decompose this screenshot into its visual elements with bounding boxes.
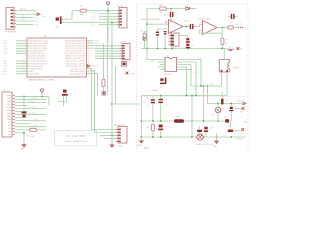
transformer T2 box [219, 60, 229, 73]
wire IC1 pin VID down [87, 71, 116, 133]
wire SV4 pin4 [95, 53, 120, 55]
junction rail x192 [191, 95, 193, 97]
svg-text:16M: 16M [55, 26, 59, 28]
wire X2 pin11 [15, 126, 46, 128]
IC U3 box with notch [165, 58, 177, 72]
svg-text:VGA7: VGA7 [6, 112, 11, 115]
wire net MCLR [16, 10, 37, 12]
svg-text:AVCC AGND: AVCC AGND [29, 72, 40, 75]
svg-text:R1: R1 [228, 125, 230, 127]
svg-text:XTAL1/TOSC1.CLK PB6: XTAL1/TOSC1.CLK PB6 [65, 60, 85, 63]
svg-text:C5: C5 [229, 11, 231, 13]
svg-text:C7: C7 [191, 45, 193, 47]
wire fb vertical [221, 28, 223, 39]
svg-text:XTAL2/TOSC2.CLK PB7: XTAL2/TOSC2.CLK PB7 [65, 62, 85, 65]
svg-text:21: 21 [88, 58, 90, 60]
svg-text:AGND: AGND [144, 147, 150, 150]
resistor R4 [160, 7, 167, 10]
svg-text:(AIN0/OC0A.PC22) PD6: (AIN0/OC0A.PC22) PD6 [65, 55, 85, 58]
svg-text:PC3 (ADC3/PCINT11): PC3 (ADC3/PCINT11) [29, 62, 47, 65]
capacitor C2b [156, 32, 159, 33]
wire cap branch [23, 96, 25, 111]
wire SV4 pin1 [95, 45, 120, 47]
wire after R2 [37, 129, 47, 131]
wire opamp1 minus fb [158, 29, 169, 32]
ground GND1 arrow [22, 143, 26, 147]
svg-text:PC2 (ADC2/PCINT10): PC2 (ADC2/PCINT10) [29, 60, 47, 63]
polarized cap C15 [204, 127, 207, 130]
svg-text:PC4 (ADC4/SDA): PC4 (ADC4/SDA) [29, 65, 44, 68]
wire IC1 left pin1 [16, 40, 27, 42]
wire x216 gnd drop [216, 133, 218, 141]
wire C5 stubs [228, 15, 237, 17]
capacitor C3b [164, 31, 167, 32]
connector X2 [2, 92, 12, 137]
flag arrow IC1 TX [87, 65, 90, 68]
wire IC3 left pin3 [160, 64, 165, 66]
junction bus x222.3 [221, 48, 223, 50]
svg-text:VGA5: VGA5 [6, 106, 11, 109]
svg-text:VGA2: VGA2 [6, 97, 11, 100]
svg-text:VGA6: VGA6 [6, 109, 11, 112]
wire IC3 right pin1 [177, 60, 202, 87]
resistor R9 dark [221, 99, 223, 105]
wire SV1 pin4 [99, 18, 117, 20]
svg-text:22: 22 [88, 55, 90, 57]
nc cross S1 [126, 72, 129, 75]
wire X2 pin8 [15, 117, 27, 119]
svg-text:VGA.AVR (MEGA. 8. TQFP): VGA.AVR (MEGA. 8. TQFP) [28, 79, 54, 82]
polarized cap C6 [186, 38, 189, 40]
ground AGND arrow [139, 141, 143, 144]
svg-text:PC1 (ADC1/PCINT9): PC1 (ADC1/PCINT9) [29, 57, 46, 60]
svg-text:SCL: SCL [3, 73, 7, 75]
wire SV2 bottom stub [171, 46, 173, 49]
capacitor C4 series [190, 24, 191, 29]
svg-text:0.1u: 0.1u [229, 21, 233, 23]
note frame project text [55, 131, 97, 147]
junction gnd x216.5 [216, 136, 218, 138]
svg-text:C.GND: C.GND [40, 16, 47, 18]
svg-text:L.VGA.R: L.VGA.R [27, 100, 35, 103]
svg-text:B.IN: B.IN [92, 19, 96, 21]
svg-text:RXD: RXD [21, 19, 26, 21]
wire R5 links [145, 32, 147, 49]
flag arrow net 5V [37, 13, 40, 16]
junction gnd x152.9 [152, 136, 154, 138]
svg-text:(AIN1/PCINT23.A1) PD7: (AIN1/PCINT23.A1) PD7 [65, 57, 85, 60]
svg-text:C7: C7 [69, 94, 71, 96]
svg-text:D.G2: D.G2 [3, 53, 7, 55]
polarized cap C8 [102, 92, 106, 96]
wire IC3 left pin2 [158, 61, 165, 63]
svg-text:TV.OUT: TV.OUT [91, 66, 99, 68]
wire x192 drop [191, 96, 193, 138]
wire nc2 stub [235, 108, 241, 110]
svg-text:P.GBB: P.GBB [152, 90, 158, 92]
junction left y121 [140, 120, 142, 122]
wire R8 link [152, 131, 154, 137]
svg-text:GND: GND [34, 24, 39, 26]
wire gnd rail y137 [141, 136, 246, 138]
wire IC1 left pin5 [16, 50, 27, 52]
junction mid x152.9 [152, 120, 154, 122]
resistor R2 [30, 128, 37, 131]
ground GND5 rail [228, 49, 234, 50]
svg-text:D2: D2 [212, 115, 214, 117]
wire SV4 pin5 [95, 55, 120, 57]
frame sheet2 dotted border [137, 4, 249, 150]
wire x115 vertical [115, 66, 117, 104]
wire bus to IC3 [147, 49, 165, 60]
svg-text:GND: GND [118, 146, 123, 148]
wire pin5 [16, 23, 33, 25]
wire SV4 pin2 [95, 47, 120, 49]
svg-text:G.IN: G.IN [92, 16, 97, 18]
svg-text:SUPPLY: SUPPLY [233, 67, 241, 69]
svg-text:SV2: SV2 [170, 31, 174, 33]
ground GND2 arrow [110, 144, 114, 148]
svg-text:(TXD/PCINT17.AIN) PD1: (TXD/PCINT17.AIN) PD1 [65, 42, 85, 45]
wire C3b down [164, 35, 166, 49]
wire IC3 right pin3 [177, 65, 192, 87]
wire supply rail y95.5 [141, 95, 227, 97]
wire vertical bus x112 [111, 22, 113, 135]
wire C7 stub b [58, 96, 67, 102]
wire pin4 [16, 20, 33, 22]
svg-text:L.VGA.B: L.VGA.B [29, 112, 37, 115]
junction X2 y96 b [41, 96, 43, 98]
wire opamp1 out [183, 26, 190, 28]
svg-text:IC3: IC3 [166, 56, 169, 58]
wire mid rail y121 [141, 120, 231, 122]
led D2 [215, 107, 221, 113]
wire X2 pin5 [15, 108, 46, 110]
svg-text:74HC04D: 74HC04D [164, 74, 173, 76]
wire X2 gnd drop [23, 133, 25, 143]
junction HSUB a [200, 85, 202, 87]
wire VCC2 drop [41, 93, 43, 96]
wire SV4 pin3 [95, 50, 120, 52]
wire T2 top [223, 49, 225, 60]
wire IC1 left pin7 [16, 60, 27, 62]
connector X1 pins [11, 10, 14, 12]
junction SV3 [111, 135, 113, 137]
svg-text:HD IN: HD IN [117, 6, 123, 8]
resistor R1 [80, 9, 87, 12]
resistor R3 vertical [102, 79, 105, 87]
junction bus x147 [146, 48, 148, 50]
wire opamp2 fb [200, 30, 223, 33]
wire opamp1 plus [147, 23, 169, 25]
polarized cap C12 [159, 125, 163, 128]
svg-text:V14: V14 [8, 134, 11, 136]
junction bus x165.1 [164, 48, 166, 50]
capacitor C5 [231, 14, 232, 19]
svg-text:10k: 10k [80, 14, 83, 16]
junction gnd x203.5 [203, 136, 205, 138]
wire SV1 pin2 [99, 13, 117, 15]
svg-text:1.5: 1.5 [146, 105, 149, 107]
svg-text:GND: GND [213, 146, 218, 148]
wire after D1 [190, 8, 197, 10]
resistor R7 vertical [221, 38, 224, 45]
nc cross X2 [242, 107, 245, 110]
svg-text:L.VGA.G: L.VGA.G [29, 106, 37, 109]
svg-text:L.VGA.GB: L.VGA.GB [29, 97, 39, 100]
svg-text:GBATV SOFA LM358: GBATV SOFA LM358 [141, 18, 161, 21]
wire X2 pin6 [15, 111, 27, 113]
capacitor C11 [159, 99, 164, 101]
wire C15 link [205, 132, 207, 137]
wire pin2 [16, 13, 37, 15]
wire corner x49 [48, 96, 50, 105]
junction opamp1 out [185, 26, 187, 28]
node test points [238, 27, 239, 28]
svg-text:GND AGND GND1: GND AGND GND1 [70, 70, 85, 73]
wire IC3 right pin4 [177, 67, 187, 96]
svg-text:V.OUT: V.OUT [236, 24, 242, 26]
wire T2 pinB down [226, 72, 228, 96]
svg-text:VCC AVCC VCC1: VCC AVCC VCC1 [71, 67, 85, 70]
wire IC1 left pin8 [16, 63, 27, 65]
wire R9 top [221, 92, 223, 99]
wire IC1 left pin6 [16, 53, 27, 55]
svg-text:C9: C9 [224, 116, 226, 118]
junction opamp in [146, 23, 148, 25]
component S1 box [122, 62, 127, 67]
junction mid x160.7 [160, 120, 162, 122]
wire SV1 pin3 [99, 15, 117, 17]
svg-text:PC0 (ADC0/PCINT8): PC0 (ADC0/PCINT8) [29, 55, 46, 58]
wire IC1 right pin1 [87, 40, 94, 42]
wire D2 links [217, 104, 219, 122]
svg-text:R1: R1 [146, 98, 148, 100]
svg-text:VGA9: VGA9 [6, 118, 11, 121]
svg-text:1n: 1n [165, 14, 167, 16]
wire left drop [140, 96, 142, 141]
svg-text:R7: R7 [225, 39, 227, 41]
junction X2 gnd [23, 132, 25, 134]
svg-text:24: 24 [88, 50, 90, 52]
wire SV3 gnd drop [111, 136, 113, 144]
wire IC3 right pin5 [177, 69, 193, 71]
supply VCC2 symbol [41, 89, 44, 92]
wire C10 links [152, 96, 154, 122]
wire drop x203 [203, 86, 205, 121]
wire X2 pin9 [15, 120, 46, 122]
resistor R10 dark [197, 130, 202, 132]
capacitor C1 [170, 12, 171, 17]
wire IC1 left pin9 [16, 65, 27, 67]
ground GND3 arrow [215, 141, 219, 144]
diode D1 [186, 7, 190, 10]
wire crystal bottom [62, 21, 118, 23]
junction rail x186 [186, 95, 188, 97]
svg-text:Q2: Q2 [160, 86, 162, 88]
svg-text:VGA8: VGA8 [6, 115, 11, 118]
connector SV1 pins [120, 10, 122, 12]
svg-text:20: 20 [88, 61, 90, 63]
svg-text:VGA4: VGA4 [6, 103, 11, 106]
flag arrow AUDIO [243, 102, 246, 105]
svg-text:T1 L.GB: T1 L.GB [27, 136, 35, 138]
wire IC1 right pin4 [87, 47, 94, 49]
junction C1 top [170, 8, 172, 10]
wire C2b down [157, 36, 159, 49]
wire IC1 left pin2 [16, 42, 27, 44]
wire VCC vertical [107, 6, 109, 43]
connector SV4 pins [122, 45, 124, 47]
wire IC1 right pin2 [87, 42, 94, 44]
svg-text:C1: C1 [175, 13, 177, 15]
svg-text:HSUB: HSUB [209, 84, 215, 86]
wire HSUB rail [191, 72, 222, 86]
wire IC1 left pin11 [16, 70, 27, 72]
svg-text:POWER IDE: POWER IDE [5, 31, 17, 33]
wire pin3 [16, 17, 33, 19]
svg-text:C6: C6 [191, 39, 193, 41]
connector SV3 [118, 127, 127, 144]
junction rail x196b [195, 95, 197, 97]
capacitor C7 [63, 90, 67, 93]
svg-text:OPA2TV GRA: OPA2TV GRA [198, 18, 211, 21]
svg-text:AGND GND B-Legs: AGND GND B-Legs [196, 143, 213, 146]
wire audio out [208, 103, 244, 105]
svg-text:1.0mH: 1.0mH [175, 117, 181, 119]
svg-text:1k: 1k [225, 44, 227, 46]
resistor R8 vertical [151, 124, 154, 131]
capacitor C14 on rail [225, 119, 229, 122]
junction audio b [221, 103, 223, 105]
svg-text:R8: R8 [225, 99, 227, 101]
IC U1 ATmega box [27, 38, 87, 77]
svg-text:R5: R5 [141, 31, 143, 33]
wire SV4 pin6 [95, 58, 120, 60]
junction bus x157.5 [157, 48, 159, 50]
junction gnd x231.3 [230, 136, 232, 138]
junction opamp2 out [221, 27, 223, 29]
wire X2 pin12 [15, 129, 30, 131]
wire X2 pin10 [15, 123, 30, 125]
wire IC1 left pin10 [16, 68, 27, 70]
svg-text:AGND: AGND [137, 144, 143, 147]
wire y104 branch [112, 103, 140, 105]
wire C12 link [160, 130, 162, 137]
wire X2 pin2 [15, 98, 46, 100]
junction bus x172 [171, 48, 173, 50]
wire x107 vertical [107, 16, 109, 95]
wire C6 C7 link [187, 43, 189, 44]
svg-text:VGA1: VGA1 [6, 94, 11, 97]
svg-text:MCLR: MCLR [20, 9, 26, 11]
wire X2 pin7 [15, 114, 46, 116]
wire IC1 right pin3 [87, 45, 94, 47]
junction X2 y96 a [23, 96, 25, 98]
resistor R5 vertical [143, 33, 146, 40]
wire after R6 [233, 27, 237, 29]
wire IC3 left pin5 [160, 69, 165, 71]
wire C4 to opamp2 [193, 25, 202, 27]
svg-text:SDA: SDA [34, 17, 39, 20]
wire C1 link [166, 9, 172, 25]
junction gnd x192 [191, 136, 193, 138]
nc cross X3 [241, 128, 244, 131]
connector SV1 [119, 8, 127, 28]
wire IC3 right pin2 [177, 62, 197, 96]
supply mark sheet2 [143, 38, 145, 41]
svg-text:PROBE HD: PROBE HD [114, 125, 125, 127]
svg-text:PB1 (PLAY/OC1A.PWM): PB1 (PLAY/OC1A.PWM) [29, 42, 49, 45]
svg-text:HD.OUT: HD.OUT [120, 42, 128, 44]
svg-text:V10: V10 [8, 122, 11, 124]
junction HSUB c [207, 85, 209, 87]
polarized cap C13 [230, 107, 233, 109]
junction x112 y22 [111, 21, 113, 23]
wire IC1 pin SYNC down [87, 68, 116, 129]
connector SV2 [171, 33, 179, 46]
junction x112 y45.8 [111, 45, 113, 47]
svg-text:IC2A: IC2A [184, 20, 189, 23]
junction HSUB b [203, 85, 205, 87]
svg-text:10k: 10k [159, 12, 162, 14]
wire IC3 left pin4 [158, 66, 165, 68]
wire SV2 link [179, 36, 188, 39]
svg-text:V13: V13 [8, 131, 11, 133]
wire x103 vertical [103, 44, 105, 80]
wire X2 pin13 [15, 132, 24, 134]
svg-text:PB0 (PLAY/ICP1.CLK0): PB0 (PLAY/ICP1.CLK0) [29, 39, 48, 42]
wire C11 links [160, 96, 162, 122]
wire sheet2 input corner [147, 9, 185, 49]
wire SV1 pin5 [99, 24, 117, 26]
svg-text:C.TV: C.TV [101, 137, 106, 139]
wire IC1 pin GND down [87, 73, 98, 95]
junction mid x192 [191, 120, 193, 122]
svg-text:IDE - VGA - HDMI: IDE - VGA - HDMI [66, 135, 86, 138]
jack J2 circle [197, 134, 203, 140]
connector SV4 mid [122, 44, 130, 60]
wire net CLK [72, 10, 80, 12]
wire X2 pin1 [15, 95, 49, 97]
wire IC1 left pin3 [16, 45, 27, 47]
svg-text:GND.5: GND.5 [228, 47, 234, 49]
wire R7 to bus [221, 45, 223, 49]
wire C13 links [230, 104, 232, 122]
junction mid x218 [217, 120, 219, 122]
svg-text:(RXD/PCINT16.AIN) PD0: (RXD/PCINT16.AIN) PD0 [65, 39, 85, 42]
inductor L1 [174, 119, 184, 122]
svg-text:PC5 (ADC5/SCL): PC5 (ADC5/SCL) [29, 67, 43, 70]
junction audio a [217, 103, 219, 105]
wire C16 links [230, 121, 241, 131]
svg-text:2.2u: 2.2u [164, 126, 168, 128]
wire x103 below [103, 87, 105, 91]
capacitor C2 polarized [22, 112, 27, 114]
junction x112 y104 [111, 103, 113, 105]
wire C7 stub a [63, 96, 65, 106]
junction gnd x160.7 [160, 136, 162, 138]
wire drop x207 [207, 86, 209, 104]
svg-text:VGA3: VGA3 [6, 100, 11, 103]
svg-text:L.HS: L.HS [33, 119, 38, 121]
wire SV3 pin3 [100, 135, 116, 137]
wire C7b to bus [187, 47, 189, 49]
capacitor C16 [228, 130, 233, 132]
svg-text:AUDIO: AUDIO [238, 100, 245, 103]
resonator Q2 [160, 78, 163, 81]
junction rail x160.7 [160, 95, 162, 97]
